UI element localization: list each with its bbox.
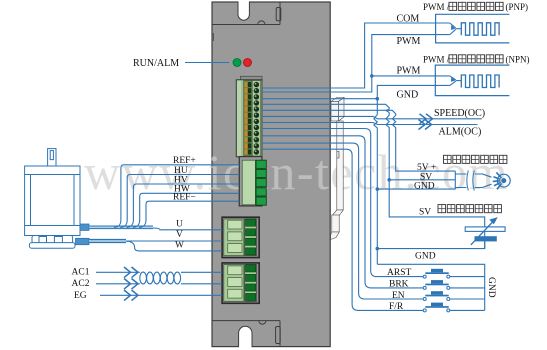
svg-text:AC1: AC1 xyxy=(72,268,90,278)
wire V xyxy=(126,240,222,242)
wire F/R xyxy=(262,149,423,310)
wire GND from CN1 xyxy=(262,98,377,100)
node SV junction xyxy=(387,178,391,182)
wire SV from CN1 xyxy=(262,104,485,248)
rheostat slider xyxy=(475,236,497,241)
wire GND to switches xyxy=(377,264,484,310)
svg-text:PWM: PWM xyxy=(397,36,421,47)
driver side divider bottom xyxy=(279,321,281,347)
CN1 pin 3 xyxy=(248,94,251,99)
wire 5V+ from CN1 xyxy=(262,110,455,171)
driver side divider top xyxy=(279,2,281,25)
node GND junction top xyxy=(376,97,380,101)
svg-text:F/R: F/R xyxy=(389,302,404,312)
svg-text:SV: SV xyxy=(419,208,431,218)
svg-text:EG: EG xyxy=(74,291,87,301)
svg-text:GND: GND xyxy=(415,252,436,262)
node GND rheostat junction xyxy=(376,247,380,251)
CN1 pin 1 xyxy=(248,82,251,87)
top panel slot xyxy=(276,8,281,21)
LED green RUN xyxy=(233,59,241,67)
svg-text:5V +: 5V + xyxy=(417,163,436,173)
svg-text:PWM /: PWM / xyxy=(423,2,450,12)
svg-text:BRK: BRK xyxy=(389,280,409,290)
CN1 pin 8 xyxy=(248,125,251,130)
wire EN switch to bus xyxy=(450,298,485,300)
bottom panel slot xyxy=(276,327,281,344)
potentiometer leads xyxy=(475,174,482,188)
wire F/R switch to bus xyxy=(450,309,485,311)
switch BRK xyxy=(425,284,448,286)
connector CN3 body xyxy=(224,219,244,256)
cable break marks xyxy=(467,171,475,191)
top mounting notch xyxy=(238,2,249,21)
svg-text:PWM /: PWM / xyxy=(423,55,450,65)
pulse source NPN xyxy=(461,75,499,88)
LED red ALM xyxy=(244,59,252,67)
rheostat track xyxy=(465,227,505,232)
node GND pot junction xyxy=(376,187,380,191)
wire REF− xyxy=(139,201,239,227)
wire GND rise to NPN emitter xyxy=(377,85,450,98)
transistor Q2 NPN xyxy=(450,76,456,80)
wire HW xyxy=(133,193,240,227)
CN2 pin 1 xyxy=(256,160,266,168)
wire PWM branch to NPN xyxy=(372,75,450,77)
svg-text:www.ican-tech.com: www.ican-tech.com xyxy=(84,144,509,200)
PNP drive frame xyxy=(436,14,510,43)
CN1 pin 10 xyxy=(248,137,251,142)
wire AC2 xyxy=(96,283,222,285)
wire BRK switch to bus xyxy=(450,287,485,289)
wire ARST switch to bus xyxy=(450,276,485,278)
CN1 pin 4 xyxy=(248,101,251,106)
svg-text:EN: EN xyxy=(392,291,405,301)
heading external analog xyxy=(438,205,446,213)
wire ARST xyxy=(262,129,423,277)
svg-text:REF−: REF− xyxy=(173,193,196,203)
CN2 pin 2 xyxy=(256,169,266,177)
motor power cable gland xyxy=(76,238,90,244)
switch ARST xyxy=(425,272,448,274)
driver front panel top seam xyxy=(212,24,280,26)
connector CN4 body xyxy=(224,265,244,302)
svg-text:GND: GND xyxy=(486,277,496,298)
svg-text:W: W xyxy=(175,241,184,251)
svg-text:AC2: AC2 xyxy=(72,279,90,289)
svg-text:ALM(OC): ALM(OC) xyxy=(439,127,482,138)
CN2 pin 3 xyxy=(256,179,266,187)
switch F/R xyxy=(425,306,448,308)
CN1 pin 5 xyxy=(248,107,251,112)
wire HV xyxy=(126,184,239,227)
heading external potentiometer xyxy=(444,155,452,163)
svg-text:SPEED(OC): SPEED(OC) xyxy=(434,108,485,119)
wire GND to rheostat xyxy=(377,241,484,248)
motor signal cable gland xyxy=(80,224,89,230)
wire BRK xyxy=(262,136,423,288)
CN2 pin 5 xyxy=(256,197,266,205)
svg-text:GND: GND xyxy=(397,90,419,101)
wire HU xyxy=(120,175,239,228)
potentiometer cable header xyxy=(455,171,466,189)
wire GND to potentiometer xyxy=(377,188,455,190)
connector CN1 body xyxy=(236,80,262,157)
wire COM xyxy=(262,23,450,88)
motor power cable xyxy=(89,239,126,243)
driver box body xyxy=(212,2,330,347)
bottom seam bump xyxy=(259,321,266,325)
connector CN4 frame xyxy=(222,263,259,303)
wire SPEED(OC) xyxy=(262,116,482,118)
top seam bump xyxy=(258,21,265,25)
GND bus vertical xyxy=(374,99,377,265)
potentiometer RP1 xyxy=(482,172,510,189)
svg-text:RUN/ALM: RUN/ALM xyxy=(133,58,179,69)
driver front panel bottom seam xyxy=(212,320,280,322)
svg-text:REF+: REF+ xyxy=(173,156,196,166)
SPEED arrow xyxy=(420,114,433,124)
wire EG xyxy=(100,294,222,296)
svg-text:ARST: ARST xyxy=(387,268,411,278)
bottom mounting notch xyxy=(239,326,252,347)
side mounting bracket shell xyxy=(331,98,344,240)
left edge tab xyxy=(211,33,214,41)
wire SV to potentiometer xyxy=(389,179,455,181)
motor M1 xyxy=(25,149,80,249)
wire EN xyxy=(262,143,423,299)
wire REF+ xyxy=(114,165,239,228)
wire AC1 xyxy=(96,271,222,273)
wire W xyxy=(126,241,222,251)
CN1 pin 12 xyxy=(248,150,251,155)
CN1 pin 6 xyxy=(248,113,251,118)
svg-text:V: V xyxy=(176,230,183,240)
svg-text:HU: HU xyxy=(174,166,188,176)
ALM arrow xyxy=(419,120,432,130)
connector CN1 bottom cap xyxy=(241,156,263,161)
svg-text:(PNP): (PNP) xyxy=(506,2,529,12)
NPN drive frame xyxy=(435,65,509,96)
CN2 pin 4 xyxy=(256,188,266,196)
svg-text:COM: COM xyxy=(397,14,420,25)
RUN/ALM leader line xyxy=(185,62,229,64)
motor signal cable xyxy=(89,226,153,230)
svg-text:PWM: PWM xyxy=(397,66,421,77)
wire PWM xyxy=(262,35,450,92)
svg-text:(NPN): (NPN) xyxy=(506,55,530,65)
CN1 pin 2 xyxy=(248,88,251,93)
wire ALM(OC) xyxy=(262,123,478,125)
pulse source PNP xyxy=(461,23,499,35)
svg-text:GND: GND xyxy=(414,182,435,192)
transistor Q1 PNP xyxy=(450,23,456,28)
connector CN2 hall frame xyxy=(239,157,262,206)
node PWM junction xyxy=(370,74,374,78)
wire U xyxy=(153,228,222,230)
connector CN2 body xyxy=(242,160,255,205)
connector CN1 top cap xyxy=(241,76,263,80)
line filter coil L1 xyxy=(140,272,147,284)
rheostat arrow xyxy=(471,221,494,245)
CN1 pin 9 xyxy=(248,131,251,136)
connector CN3 frame xyxy=(222,217,259,257)
switch EN xyxy=(425,295,448,297)
svg-text:U: U xyxy=(176,219,183,229)
CN1 pin 7 xyxy=(248,119,251,124)
CN1 pin 11 xyxy=(248,143,251,148)
